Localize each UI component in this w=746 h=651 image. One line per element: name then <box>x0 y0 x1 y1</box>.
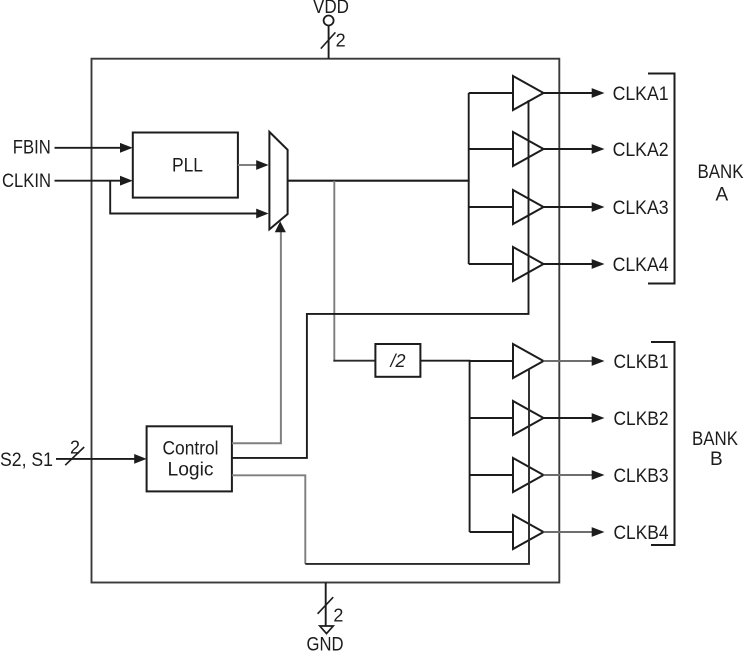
wire stub to buffer A1 <box>469 92 514 94</box>
divider block /2 <box>375 344 420 377</box>
wire control to mux select <box>232 232 281 443</box>
wire CLKIN input <box>55 180 122 182</box>
svg-text:B: B <box>710 449 723 470</box>
wire VDD stem <box>328 25 330 58</box>
svg-text:GND: GND <box>307 635 344 651</box>
svg-text:PLL: PLL <box>172 156 203 177</box>
svg-text:A: A <box>716 185 729 206</box>
wire stub to buffer B1 <box>470 360 514 362</box>
bank B input bus <box>469 361 471 532</box>
buffer B3 <box>513 458 544 492</box>
Control Logic block <box>147 426 232 491</box>
wire output CLKA1 <box>544 92 593 94</box>
svg-text:Logic: Logic <box>168 460 214 481</box>
svg-text:S2, S1: S2, S1 <box>0 450 53 471</box>
wire output CLKB4 <box>544 531 593 533</box>
GND stem wire <box>325 583 327 627</box>
svg-text:FBIN: FBIN <box>13 137 51 158</box>
svg-text:CLKB3: CLKB3 <box>614 466 669 487</box>
svg-text:2: 2 <box>336 31 346 51</box>
buffer A4 <box>513 247 544 281</box>
svg-text:/2: /2 <box>389 351 406 371</box>
wire divider output <box>420 360 470 362</box>
wire divider feed horizontal <box>333 360 375 362</box>
svg-text:CLKA4: CLKA4 <box>613 255 669 276</box>
buffer B1 <box>513 344 544 378</box>
outer device box <box>92 59 560 583</box>
svg-text:CLKB2: CLKB2 <box>614 409 669 430</box>
bank B bracket <box>651 342 675 545</box>
wire output CLKA2 <box>544 148 593 150</box>
wire output CLKA4 <box>544 263 593 265</box>
wire PLL output to mux <box>238 164 258 166</box>
wire FBIN input <box>55 147 122 149</box>
buffer A1 <box>513 76 544 110</box>
buffer A2 <box>513 132 544 166</box>
buffer B4 <box>513 515 544 549</box>
svg-text:BANK: BANK <box>698 162 744 183</box>
wire stub to buffer B3 <box>470 474 514 476</box>
wire stub to buffer B4 <box>470 531 514 533</box>
svg-text:CLKB4: CLKB4 <box>614 523 669 544</box>
svg-text:CLKA2: CLKA2 <box>613 140 669 161</box>
wire output CLKB3 <box>544 474 593 476</box>
svg-text:CLKIN: CLKIN <box>2 171 51 192</box>
PLL block U1 <box>133 133 238 198</box>
buffer A3 <box>513 190 544 224</box>
GND bus slash <box>318 597 334 614</box>
wire output CLKB1 <box>544 360 593 362</box>
wire control enable bank B <box>232 475 305 564</box>
wire control enable bank A <box>232 100 529 458</box>
VDD bus slash <box>321 32 336 48</box>
wire divider feed vertical <box>333 181 335 362</box>
wire output CLKB2 <box>544 417 593 419</box>
svg-text:Control: Control <box>163 439 219 460</box>
svg-text:CLKB1: CLKB1 <box>614 352 669 373</box>
wire stub to buffer A3 <box>469 206 514 208</box>
VDD pin circle <box>324 16 334 26</box>
wire stub to buffer B2 <box>470 417 514 419</box>
bank A bracket <box>648 74 675 284</box>
svg-text:2: 2 <box>333 605 343 625</box>
svg-text:CLKA1: CLKA1 <box>613 84 669 105</box>
svg-text:BANK: BANK <box>692 429 738 450</box>
mux M1 <box>269 132 287 230</box>
wire output CLKA3 <box>544 206 593 208</box>
wire CLKIN branch to mux <box>110 181 257 214</box>
GND symbol triangle <box>320 626 333 634</box>
wire select inputs <box>56 458 135 460</box>
select bus slash <box>65 447 84 465</box>
wire mux output <box>288 180 470 182</box>
wire stub to buffer A4 <box>469 263 514 265</box>
wire stub to buffer A2 <box>469 148 514 150</box>
svg-text:2: 2 <box>70 438 80 458</box>
bank A input bus <box>468 93 470 264</box>
svg-text:CLKA3: CLKA3 <box>613 198 669 219</box>
buffer B2 <box>513 401 544 435</box>
